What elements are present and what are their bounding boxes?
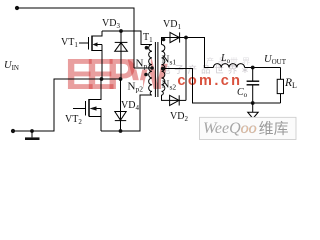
wire secondary bottom to VD2 bbox=[162, 95, 170, 100]
inductor Lo bbox=[213, 64, 244, 68]
wire VD2 cathode bbox=[179, 99, 186, 101]
node VD4 bottom junction bbox=[119, 129, 123, 133]
svg-text:VD3: VD3 bbox=[102, 18, 120, 30]
label background Ns2 bbox=[161, 79, 176, 89]
ground input bbox=[25, 131, 40, 140]
label background Ns1 bbox=[161, 54, 176, 64]
node Co top junction bbox=[251, 66, 255, 70]
node rectified junction bbox=[184, 36, 188, 40]
capacitor Co bbox=[247, 68, 260, 104]
svg-text:RL: RL bbox=[284, 77, 297, 90]
diode VD2 bbox=[170, 95, 180, 105]
transformer T1 primary winding bbox=[149, 45, 152, 96]
svg-text:UOUT: UOUT bbox=[264, 54, 287, 66]
node secondary center tap bbox=[161, 67, 165, 71]
node ground junction bbox=[30, 129, 34, 133]
diode VD1 bbox=[170, 32, 180, 42]
svg-text:Co: Co bbox=[237, 87, 248, 99]
node Co bottom junction bbox=[251, 101, 255, 105]
svg-text:VT1: VT1 bbox=[61, 37, 78, 49]
node VT1 source VT2 drain junction bbox=[100, 77, 104, 81]
node primary center tap bbox=[150, 66, 154, 70]
svg-text:VD1: VD1 bbox=[163, 19, 181, 31]
wire middle return rail bbox=[13, 79, 121, 131]
wire top rail bbox=[17, 8, 134, 68]
svg-text:VT2: VT2 bbox=[65, 114, 82, 126]
wire VD1 cathode to output bbox=[180, 38, 214, 68]
node primary dot Np1 bbox=[145, 46, 149, 50]
svg-text:WeeQoo维库: WeeQoo维库 bbox=[203, 120, 289, 138]
svg-text:VD4: VD4 bbox=[121, 100, 139, 112]
transformer core bbox=[154, 42, 156, 97]
svg-text:VD2: VD2 bbox=[170, 111, 188, 123]
node VD3 top junction bbox=[119, 29, 123, 33]
node VD3 VD4 junction bbox=[119, 77, 123, 81]
svg-text:UIN: UIN bbox=[4, 60, 19, 72]
diode VD3 bbox=[115, 31, 128, 79]
svg-text:Lo: Lo bbox=[220, 53, 231, 65]
wire VT2 source rail bbox=[101, 95, 152, 131]
transistor VT2 bbox=[73, 79, 101, 131]
transformer T1 secondary winding bbox=[162, 45, 165, 96]
watermark weeqoo box bbox=[200, 117, 297, 139]
transistor VT1 bbox=[79, 31, 102, 79]
resistor RL bbox=[277, 68, 283, 104]
label background Np1 bbox=[135, 56, 151, 69]
svg-text:T1: T1 bbox=[143, 32, 153, 44]
node secondary dot Ns1 bbox=[162, 38, 166, 42]
wire output top bbox=[245, 67, 281, 69]
node input positive terminal bbox=[15, 6, 19, 10]
svg-text:EEPW: EEPW bbox=[65, 50, 169, 99]
wire secondary center tap return bbox=[162, 69, 281, 104]
wire primary center tap bbox=[134, 67, 152, 69]
node input negative terminal bbox=[11, 129, 15, 133]
node primary dot Np2 bbox=[144, 73, 148, 77]
wire VT1 drain rail bbox=[102, 31, 152, 45]
wire secondary top to VD1 bbox=[162, 38, 171, 45]
diode VD4 bbox=[115, 79, 126, 131]
wire cathode link bbox=[185, 38, 187, 101]
ground output bbox=[248, 103, 259, 119]
label background Np2 bbox=[127, 80, 144, 92]
